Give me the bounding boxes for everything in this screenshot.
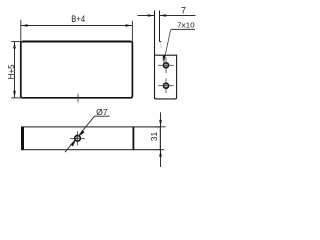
svg-text:31: 31 <box>149 131 159 141</box>
dimension 31 line <box>160 112 162 167</box>
svg-text:B+4: B+4 <box>71 14 85 24</box>
label 7x10 underline <box>171 28 195 30</box>
dimension B+4 arrowhead right <box>126 24 133 27</box>
side view flange outline <box>155 55 177 99</box>
dimension H+5 arrowhead bottom <box>13 91 16 98</box>
dimension 31 arrowhead top <box>159 120 162 127</box>
label Ø7 underline <box>94 115 109 117</box>
side view left edge <box>154 11 156 100</box>
dimension 31 arrowhead bottom <box>159 150 162 157</box>
dimension 31 extension line top <box>155 126 166 128</box>
slot hole 7x10 upper <box>164 63 169 68</box>
svg-text:H+5: H+5 <box>7 64 16 79</box>
label 7x10 <box>177 21 195 30</box>
leader 7x10 arrowhead <box>163 55 166 61</box>
leader 7x10 line <box>164 29 171 62</box>
hole Ø7 lower arrowhead <box>70 141 75 147</box>
slot hole upper horizontal centerline <box>158 64 173 66</box>
hole centerline tick on front view bottom edge <box>77 94 79 103</box>
dimension 7 line right segment with arrowhead <box>160 14 196 17</box>
slot hole 7x10 lower <box>164 83 169 88</box>
dimension H+5 line <box>14 42 16 98</box>
dimension H+5 extension line top <box>11 41 21 43</box>
dimension B+4 label <box>71 14 85 24</box>
svg-text:7x10: 7x10 <box>177 21 195 30</box>
dimension B+4 extension line right <box>131 21 133 42</box>
slot hole upper vertical centerline <box>165 57 167 73</box>
slot hole lower horizontal centerline <box>158 85 173 87</box>
label Ø7 <box>96 108 108 117</box>
dimension H+5 label (rotated) <box>7 64 16 79</box>
dimension B+4 arrowhead left <box>21 24 28 27</box>
bottom view outline <box>22 127 161 150</box>
dimension B+4 extension line left <box>20 20 22 42</box>
dimension 7 label <box>181 6 186 16</box>
hole Ø7 horizontal centerline <box>70 138 85 140</box>
hole Ø7 circle <box>75 135 81 141</box>
front view plate outline <box>21 42 133 98</box>
side view tab bend step <box>160 42 162 48</box>
dimension H+5 extension line bottom <box>11 97 22 99</box>
dimension 31 label (rotated) <box>149 131 159 141</box>
bottom view bend line <box>132 127 134 150</box>
hole Ø7 upper arrowhead <box>79 130 84 136</box>
side view top tab right edge (also dim 7 extension) <box>159 11 161 42</box>
dimension B+4 line <box>21 25 133 27</box>
svg-text:7: 7 <box>181 6 186 16</box>
svg-text:Ø7: Ø7 <box>96 108 108 117</box>
dimension H+5 arrowhead top <box>13 42 16 49</box>
dimension 7 line left segment with arrowhead <box>138 14 155 17</box>
slot hole lower vertical centerline <box>165 78 167 93</box>
hole Ø7 diameter leader line <box>65 116 95 152</box>
bottom view thick left lip edge <box>21 127 24 150</box>
hole Ø7 vertical centerline <box>77 131 79 145</box>
dimension 31 extension line bottom <box>155 149 164 151</box>
